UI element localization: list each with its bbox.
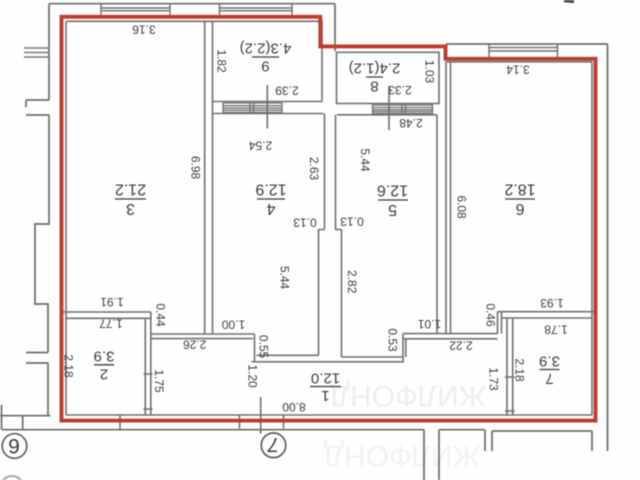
wire building outer right wall <box>607 44 609 451</box>
wire bottom-left tick <box>22 416 24 430</box>
svg-text:2.26: 2.26 <box>183 337 207 351</box>
door dim line room9 to room4 <box>266 85 268 129</box>
window W2 room 9 <box>220 4 293 16</box>
wall 4|5 lower left face <box>318 230 320 356</box>
svg-text:6.98: 6.98 <box>189 156 203 180</box>
svg-text:9: 9 <box>261 58 269 75</box>
wall room3 bottom upper line <box>62 311 151 313</box>
vent block B between room8 and room5 <box>373 105 433 114</box>
wall left inner face x=66 <box>65 21 67 415</box>
svg-text:8: 8 <box>370 78 378 95</box>
wire staircase door tick upper 1 <box>26 99 49 101</box>
wire left wall vent hatch line 3 <box>24 56 49 58</box>
svg-text:7: 7 <box>545 370 553 387</box>
wall corridor right upper line <box>403 333 498 335</box>
wall room4 bottom upper line <box>257 354 319 356</box>
svg-text:0.55: 0.55 <box>257 335 271 359</box>
svg-text:2.54: 2.54 <box>248 139 272 153</box>
svg-text:1.93: 1.93 <box>540 296 564 310</box>
room 5 label <box>377 182 408 219</box>
axis circle lower-floor partial <box>1 476 24 480</box>
wire lower unit wall stub B <box>438 430 440 480</box>
wire left wall vent hatch line 1 <box>24 47 49 49</box>
svg-text:0.53: 0.53 <box>386 328 400 352</box>
wall room7 left face right line <box>512 318 514 415</box>
svg-text:2.63: 2.63 <box>307 157 321 181</box>
svg-text:0.44: 0.44 <box>154 303 168 327</box>
svg-text:0.46: 0.46 <box>484 303 498 327</box>
wire building outer bottom line left part <box>2 429 424 431</box>
wall 4|5 notch left jog <box>319 229 325 231</box>
top right stub mark <box>564 0 574 3</box>
svg-text:12.9: 12.9 <box>255 181 286 198</box>
svg-text:7: 7 <box>267 433 279 455</box>
door tick room7 lower <box>505 410 515 412</box>
tick bottom wall at x=239 <box>238 415 240 429</box>
room 8 label <box>349 60 401 95</box>
tick bottom wall at x=120 <box>119 415 121 430</box>
wall room7 left face left line <box>506 318 508 415</box>
wire bottom-left inner line <box>0 415 51 417</box>
room 7 label <box>539 352 560 387</box>
dimension labels horizontal <box>99 22 568 414</box>
wall corridor top-left upper line <box>151 333 255 335</box>
svg-text:1.01: 1.01 <box>417 317 441 331</box>
wire staircase left wall lower <box>47 363 49 416</box>
wall room6 top inner line <box>446 61 592 63</box>
svg-text:ЖИЛФОНД: ЖИЛФОНД <box>324 439 481 472</box>
svg-text:1: 1 <box>321 387 329 404</box>
wall 3|4 left face <box>204 21 206 334</box>
wall corridor right lower line <box>403 338 498 340</box>
wall 4|5 lower right face <box>341 230 343 358</box>
dimension labels vertical <box>62 49 527 393</box>
svg-text:18.2: 18.2 <box>504 181 535 198</box>
svg-text:2.22: 2.22 <box>449 339 473 353</box>
svg-text:3.9: 3.9 <box>94 348 115 365</box>
door dim line room8 to room5 <box>388 86 390 130</box>
wall room9 bottom line <box>213 101 323 103</box>
vent block A between room9 and room4 <box>223 103 282 113</box>
room 2 label <box>94 348 115 383</box>
wire staircase door tick lower 1 <box>26 352 48 354</box>
wall 4|5 upper right face <box>335 115 337 230</box>
svg-text:1.78: 1.78 <box>544 323 568 337</box>
svg-text:3.16: 3.16 <box>132 22 156 36</box>
wall room6 left face inner line <box>450 62 452 334</box>
axis line to circle 7 <box>260 397 262 434</box>
wall room7 top upper line (room6 bottom) <box>498 311 596 313</box>
wire staircase door tick upper 2 <box>26 114 49 116</box>
wire lower unit top line <box>492 430 592 432</box>
wall 4|5 upper left face <box>324 114 326 230</box>
svg-text:ЖИЛФОНД: ЖИЛФОНД <box>330 379 487 412</box>
window W1 room 3 <box>101 4 170 16</box>
svg-text:3.14: 3.14 <box>506 63 530 77</box>
wall room5 top line <box>337 114 437 116</box>
tick bottom wall at x=283 <box>283 415 285 429</box>
wall bottom inner line <box>66 414 592 416</box>
svg-text:1.73: 1.73 <box>487 367 501 391</box>
svg-text:2.82: 2.82 <box>345 270 359 294</box>
wall 4|5 notch right jog <box>336 229 342 231</box>
axis circle 7 <box>261 433 286 458</box>
wall room6 right face and room7 right face <box>591 62 593 415</box>
svg-text:4: 4 <box>266 200 275 217</box>
svg-text:5: 5 <box>388 201 397 218</box>
svg-text:21.2: 21.2 <box>115 181 146 198</box>
svg-text:12.6: 12.6 <box>377 182 408 199</box>
wall room6 left face outer line <box>445 62 447 334</box>
svg-text:2.33: 2.33 <box>388 83 412 97</box>
wall step 0.53 right line <box>405 339 407 357</box>
door tick room2 upper <box>144 373 153 375</box>
svg-text:3: 3 <box>126 200 135 217</box>
svg-text:1.20: 1.20 <box>246 364 260 388</box>
wall room5 bottom upper line <box>342 356 404 358</box>
red apartment boundary <box>62 17 596 421</box>
wall room2 right face right line <box>150 312 152 415</box>
door tick room2 lower <box>144 408 153 410</box>
wire lower unit wall stub E <box>591 431 593 451</box>
room 6 label <box>504 181 535 218</box>
svg-text:3.9: 3.9 <box>539 352 560 369</box>
wall room8 box <box>337 52 440 103</box>
svg-text:2.4(1.2): 2.4(1.2) <box>349 60 401 77</box>
svg-text:6: 6 <box>515 200 524 217</box>
svg-text:1.00: 1.00 <box>221 317 245 331</box>
svg-text:2.48: 2.48 <box>399 116 423 130</box>
svg-text:2.18: 2.18 <box>513 358 527 382</box>
svg-text:0.13: 0.13 <box>293 216 317 230</box>
wire staircase door leaf upper <box>25 100 27 107</box>
wall step 0.46 right line <box>501 312 503 334</box>
wire left wall vent hatch line 2 <box>24 52 49 54</box>
wire staircase door tick lower 2 <box>26 362 48 364</box>
wall corridor lower continuous line <box>252 361 405 363</box>
window W3 room 6 <box>489 44 558 58</box>
svg-text:1.77: 1.77 <box>99 317 123 331</box>
wire building outer top wall right section <box>446 43 608 45</box>
wall room3 and room9 top inner line <box>66 20 321 22</box>
wire building outer step wall at x=335 <box>334 4 336 51</box>
svg-text:6.08: 6.08 <box>455 195 469 219</box>
svg-text:5.44: 5.44 <box>278 266 292 290</box>
wall step 0.53 left line <box>402 334 404 362</box>
svg-text:9: 9 <box>8 436 20 459</box>
wall 3|4 right face <box>212 21 214 335</box>
svg-text:5.44: 5.44 <box>358 148 372 172</box>
wire building outer bottom line mid part <box>439 429 485 431</box>
wall step 0.55 vertical <box>254 334 256 362</box>
wire staircase left wall upper <box>48 4 50 100</box>
wire lower unit wall stub C <box>484 430 486 451</box>
svg-text:1.03: 1.03 <box>423 60 437 84</box>
svg-text:8.00: 8.00 <box>282 400 306 414</box>
wall corridor top-left lower line <box>151 338 253 340</box>
wall room9 right face <box>321 21 323 102</box>
wall room2 right face left line <box>144 318 146 415</box>
wire building outer top wall left section <box>49 3 335 5</box>
svg-text:2.39: 2.39 <box>275 84 299 98</box>
svg-text:2: 2 <box>100 365 108 382</box>
room 1 label <box>310 369 341 404</box>
door tick room7 upper <box>505 376 515 378</box>
room 3 label <box>115 181 146 218</box>
axis circle 9 <box>2 434 27 459</box>
svg-text:1.91: 1.91 <box>100 295 124 309</box>
room 9 label <box>240 40 292 75</box>
room 4 label <box>255 181 286 218</box>
wall room3 bottom lower line (room2 top) <box>66 317 151 319</box>
wire lower unit wall stub A <box>423 430 425 480</box>
wire bottom-left outer stub <box>1 405 3 430</box>
wall room5 right face <box>436 115 438 334</box>
wire lower unit wall stub D <box>491 431 493 451</box>
svg-text:4.3(2.2): 4.3(2.2) <box>240 40 292 57</box>
wall room7 top lower line <box>502 317 593 319</box>
wall room4 top line <box>213 113 324 115</box>
svg-text:0.13: 0.13 <box>340 215 364 229</box>
wire staircase left wall middle <box>35 115 49 353</box>
wall step 0.46 left line <box>497 312 499 334</box>
svg-text:2.18: 2.18 <box>62 354 76 378</box>
svg-text:1.75: 1.75 <box>152 369 166 393</box>
svg-text:1.82: 1.82 <box>215 49 229 73</box>
